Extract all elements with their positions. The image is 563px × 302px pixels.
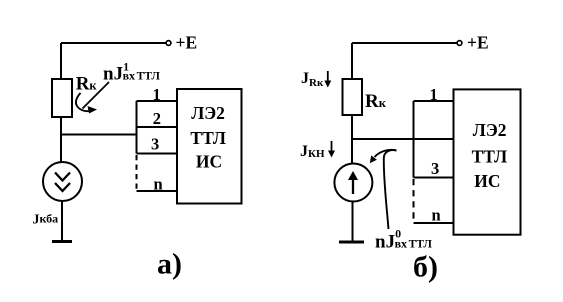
terminal +E right — [457, 41, 462, 46]
wire pointer line from label — [83, 82, 110, 109]
svg-text:3: 3 — [151, 135, 159, 154]
svg-text:ЛЭ2: ЛЭ2 — [191, 103, 225, 123]
bus vertical dashed right — [413, 179, 415, 223]
pin 2 line — [137, 126, 178, 128]
op-amp box LE2 TTL IS right — [454, 89, 521, 234]
svg-text:n: n — [154, 175, 163, 194]
current source J kn circle — [334, 164, 372, 202]
svg-text:3: 3 — [431, 159, 439, 178]
svg-text:Jкба: Jкба — [33, 212, 59, 228]
svg-text:2: 2 — [153, 109, 161, 128]
pin n line right — [414, 222, 454, 224]
down arrow after JRk — [327, 71, 329, 84]
current direction arrow left — [76, 93, 91, 111]
svg-text:ЛЭ2: ЛЭ2 — [473, 120, 507, 140]
bus vertical solid — [136, 101, 138, 154]
svg-text:ТТЛ: ТТЛ — [190, 128, 226, 148]
op-amp box LE2 TTL IS left — [177, 89, 242, 204]
wire node to input bus — [61, 134, 137, 136]
resistor R1 (Rk left) — [52, 79, 72, 117]
svg-text:ИС: ИС — [474, 171, 500, 191]
pin n line — [137, 190, 178, 192]
svg-text:n: n — [432, 206, 441, 225]
down arrow after Jkn — [331, 141, 333, 154]
bus vertical dashed — [136, 155, 138, 191]
svg-text:1: 1 — [153, 85, 161, 104]
ground left — [52, 240, 72, 243]
current source J kba — [43, 162, 82, 201]
wire top rail left — [61, 42, 166, 44]
wire rail to resistor right — [351, 43, 353, 80]
input bus left: pin 1 line — [137, 100, 178, 102]
pin 3 line right — [414, 177, 454, 179]
svg-text:+E: +E — [176, 33, 198, 53]
pin 3 line — [137, 153, 178, 155]
wire from rail to resistor — [60, 43, 62, 80]
svg-text:а): а) — [157, 248, 182, 281]
resistor R2 (Rk right) — [343, 79, 363, 115]
wire current source to ground — [61, 201, 63, 241]
wire resistor to current source right — [351, 115, 353, 164]
current direction arrow right (curved pointer) — [384, 150, 397, 229]
wire resistor to current source — [60, 117, 62, 163]
svg-text:ИС: ИС — [196, 152, 222, 172]
svg-text:ТТЛ: ТТЛ — [472, 147, 508, 167]
bus vertical solid right — [413, 101, 415, 178]
terminal +E left — [166, 41, 171, 46]
wire node to input bus right — [352, 138, 454, 140]
input bus right: pin 1 line — [414, 100, 454, 102]
svg-text:1: 1 — [430, 85, 438, 104]
wire top rail right — [352, 42, 457, 44]
wire current source to ground right — [352, 202, 354, 243]
svg-text:б): б) — [413, 251, 438, 284]
ground right — [339, 241, 364, 244]
svg-text:+E: +E — [467, 33, 489, 53]
